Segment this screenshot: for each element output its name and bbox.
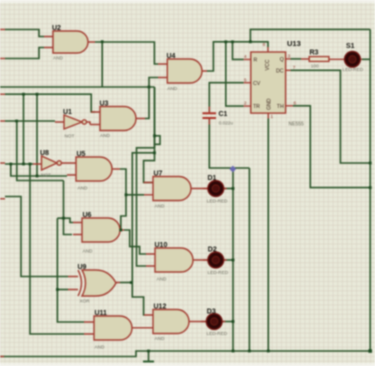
wire D1 to cathode rail bbox=[224, 188, 234, 190]
svg-text:5: 5 bbox=[244, 77, 247, 82]
U2 pin stubs bbox=[44, 37, 95, 48]
S1 lead stubs bbox=[359, 58, 362, 60]
junction node on U2 output line bbox=[101, 40, 104, 43]
svg-text:NOT: NOT bbox=[65, 134, 75, 139]
junction node rail-TH bbox=[369, 186, 372, 189]
svg-text:S1: S1 bbox=[346, 43, 355, 50]
input terminal stub y198 bbox=[0, 198, 5, 200]
input terminal stub y58 bbox=[0, 58, 5, 60]
junction node rail-VCC bbox=[249, 40, 252, 43]
svg-text:1: 1 bbox=[271, 114, 274, 119]
U9 pin stubs bbox=[68, 277, 120, 290]
wire bottom bus bbox=[0, 351, 370, 357]
wire trunk to U11 pin A bbox=[57, 218, 84, 322]
wire rail to VCC pin 8 bbox=[250, 42, 268, 47]
U6 pin stubs bbox=[73, 223, 124, 235]
svg-text:C1: C1 bbox=[219, 111, 228, 118]
wire C1 bottom to ground rail bbox=[209, 119, 249, 168]
svg-text:U7: U7 bbox=[154, 171, 163, 178]
wire branch to U6 pin A bbox=[57, 218, 73, 222]
wire input to U1 bbox=[5, 120, 55, 122]
junction node rail-DC bbox=[369, 162, 372, 165]
svg-text:U1: U1 bbox=[63, 109, 72, 116]
wire branch to U9 pin B bbox=[57, 289, 68, 291]
junction node bus-ground rail bbox=[248, 350, 251, 353]
svg-text:U6: U6 bbox=[83, 212, 92, 219]
ground symbol bar bbox=[143, 361, 154, 363]
wire S1 cathode to right rail bbox=[362, 58, 370, 60]
svg-text:U9: U9 bbox=[78, 264, 87, 271]
D1 pin stubs bbox=[203, 188, 227, 190]
wire input H2 to U3 pin A bbox=[5, 94, 95, 112]
and-gate U5 bbox=[76, 157, 112, 181]
svg-text:GND: GND bbox=[266, 98, 272, 110]
svg-text:DC: DC bbox=[276, 68, 284, 74]
wire lower input to U9 pin A bbox=[5, 197, 68, 277]
led D1 bbox=[208, 181, 224, 197]
not-gate U8 bbox=[42, 156, 58, 170]
xor-gate U9 bbox=[82, 270, 116, 296]
wire trunk staircase to U12 pin A bbox=[132, 283, 144, 316]
U12 pin stubs bbox=[144, 315, 206, 322]
U13 GND pin stub bbox=[267, 113, 269, 118]
svg-text:AND: AND bbox=[157, 277, 168, 282]
U13 left pin stubs R CV TR bbox=[244, 59, 251, 106]
junction node bus-cathode rail bbox=[232, 350, 235, 353]
timer U13 NE555 body bbox=[251, 52, 286, 113]
wire rail up and right to top bbox=[250, 29, 370, 41]
wire vertical from H2 to U5 pin B bbox=[36, 94, 38, 176]
wire jog from input line down to U5 net bbox=[11, 164, 37, 176]
origin marker diamond bbox=[229, 166, 236, 173]
wire GND pin 1 to bottom bus bbox=[267, 119, 269, 352]
svg-text:AND: AND bbox=[155, 336, 166, 341]
wire tee down to U9 output node bbox=[132, 153, 154, 283]
R3 lead stubs bbox=[301, 58, 346, 60]
junction node rail-bus corner bbox=[368, 349, 372, 353]
junction node U5out branch bbox=[125, 193, 128, 196]
wire LED cathode rail vertical bbox=[232, 168, 234, 351]
junction node trunk U9 bbox=[56, 288, 59, 291]
junction node U8 input c bbox=[29, 163, 32, 166]
svg-text:CV: CV bbox=[253, 81, 261, 87]
U4 pin stubs bbox=[158, 64, 207, 78]
svg-text:AND: AND bbox=[100, 133, 111, 138]
wire input A to U2 pin 1 bbox=[5, 30, 44, 37]
junction node D1 cathode bbox=[232, 187, 235, 190]
U8 pin stubs bbox=[33, 163, 67, 164]
wire U2 output to U4 pin A bbox=[95, 42, 158, 64]
wire U9 output joins trunk bbox=[120, 282, 132, 284]
input terminal stub y29 bbox=[0, 29, 5, 31]
wire H1 right end down bbox=[154, 87, 156, 148]
junction node H2-b bbox=[36, 93, 39, 96]
svg-text:6: 6 bbox=[294, 100, 297, 105]
capacitor C1 plates bbox=[203, 113, 217, 118]
svg-text:7: 7 bbox=[293, 65, 296, 70]
led D3 bbox=[206, 314, 222, 330]
wire DC pin 7 down to right rail bbox=[291, 70, 371, 163]
and-gate U7 bbox=[153, 177, 191, 201]
U7 pin stubs bbox=[144, 183, 208, 195]
wire branch down to TR pin 2 bbox=[226, 42, 244, 106]
U10 pin stubs bbox=[146, 254, 208, 266]
wire input B to U2 pin 2 bbox=[5, 48, 44, 59]
led S1 bbox=[345, 51, 361, 67]
svg-text:Q: Q bbox=[280, 57, 284, 63]
svg-text:D1: D1 bbox=[208, 175, 217, 182]
wire vertical to U11 pin B bbox=[30, 164, 84, 334]
svg-text:U13: U13 bbox=[287, 39, 301, 48]
svg-text:LED-RED: LED-RED bbox=[207, 199, 228, 204]
input terminal stub bottom bbox=[0, 356, 4, 358]
junction node H1-U3out bbox=[148, 86, 151, 89]
svg-text:AND: AND bbox=[167, 86, 178, 91]
junction node H2-a bbox=[22, 93, 25, 96]
svg-text:2: 2 bbox=[244, 101, 247, 106]
wire vertical to bottom bus bbox=[248, 168, 250, 351]
resistor R3 body bbox=[309, 57, 329, 62]
and-gate U3 bbox=[100, 107, 136, 131]
wire branch to R pin 4 bbox=[233, 42, 244, 60]
wire right rail vertical bbox=[369, 29, 371, 351]
svg-text:LED-RED: LED-RED bbox=[207, 331, 228, 336]
svg-text:R: R bbox=[254, 58, 258, 64]
svg-text:TR: TR bbox=[253, 104, 260, 110]
svg-text:D3: D3 bbox=[207, 309, 216, 316]
wire node H1 horizontal bbox=[0, 86, 155, 88]
wire Q pin 3 to R3 bbox=[291, 58, 302, 60]
junction node U6 output join bbox=[119, 229, 122, 232]
svg-text:AND: AND bbox=[95, 345, 106, 350]
wire CV pin 5 to C1 top bbox=[209, 83, 243, 112]
svg-text:NOT: NOT bbox=[41, 173, 51, 178]
wire tee to U10 pin B bbox=[137, 148, 155, 266]
svg-text:TH: TH bbox=[277, 104, 284, 110]
U11 pin stubs bbox=[84, 322, 94, 334]
led D2 bbox=[208, 252, 224, 268]
input terminal stub y163 bbox=[0, 162, 5, 164]
junction node bus-GND pin bbox=[267, 350, 270, 353]
wire U11 output to U12 pin B bbox=[132, 327, 153, 329]
svg-text:XOR: XOR bbox=[80, 299, 91, 304]
and-gate U2 bbox=[53, 31, 88, 53]
wire input to U8 bbox=[5, 163, 33, 165]
svg-text:LED-RED: LED-RED bbox=[343, 67, 364, 72]
junction node bus-ground symbol bbox=[147, 350, 150, 353]
wire H1 right branch down to U7 pin A bbox=[144, 87, 155, 183]
junction node U5 net bbox=[36, 175, 39, 178]
wire TH pin 6 down to right rail bbox=[293, 106, 370, 188]
wire branch from U2 output down to node H1 bbox=[101, 42, 103, 87]
svg-text:3: 3 bbox=[288, 54, 291, 59]
wire D2 to cathode rail bbox=[224, 259, 234, 261]
junction node U8 input b bbox=[22, 163, 25, 166]
svg-text:0.022u: 0.022u bbox=[219, 121, 234, 126]
and-gate U12 bbox=[153, 310, 189, 334]
svg-text:U3: U3 bbox=[100, 101, 109, 108]
junction node U8 input a bbox=[9, 163, 12, 166]
wire U5 pin B line bbox=[37, 175, 67, 177]
svg-text:R3: R3 bbox=[310, 50, 319, 57]
svg-text:100: 100 bbox=[311, 64, 319, 69]
svg-text:U12: U12 bbox=[154, 304, 167, 311]
junction node rail-R bbox=[231, 40, 234, 43]
junction node U9out bbox=[130, 281, 133, 284]
U3 pin stubs bbox=[90, 112, 145, 125]
input terminal stub y94 bbox=[0, 93, 5, 95]
junction node D3 cathode bbox=[232, 320, 235, 323]
svg-text:U11: U11 bbox=[95, 310, 108, 317]
junction node trunk tee bbox=[153, 151, 156, 154]
svg-text:4: 4 bbox=[244, 54, 247, 59]
svg-text:AND: AND bbox=[78, 186, 89, 191]
svg-text:U5: U5 bbox=[77, 151, 86, 158]
svg-text:D2: D2 bbox=[208, 247, 217, 254]
D3 pin stubs bbox=[201, 321, 225, 323]
wire vertical from H2 to U8 input line bbox=[23, 94, 25, 164]
and-gate U6 bbox=[82, 218, 120, 242]
wire ground stem bbox=[148, 351, 150, 361]
U13 right pin stubs Q DC TH bbox=[286, 59, 293, 106]
junction node U1 input bbox=[15, 120, 18, 123]
wire feeder down to U6 pins bbox=[64, 181, 73, 235]
svg-text:8: 8 bbox=[263, 42, 266, 47]
svg-text:U4: U4 bbox=[167, 53, 176, 60]
not-gate U1 bbox=[64, 115, 82, 129]
svg-text:U2: U2 bbox=[52, 25, 61, 32]
U5 pin stubs bbox=[67, 163, 120, 175]
wire U4 output up to rail bbox=[207, 42, 250, 71]
wire vertical from U1 line to feeder bbox=[17, 121, 64, 181]
and-gate U4 bbox=[167, 59, 202, 83]
wire U6 output staircase to U10 pin A bbox=[124, 230, 146, 254]
and-gate U11 bbox=[94, 316, 132, 340]
junction node trunk box top bbox=[153, 134, 156, 137]
C1 lead stubs bbox=[208, 107, 210, 125]
U13 VCC pin stub bbox=[267, 47, 269, 52]
svg-text:VCC: VCC bbox=[265, 59, 271, 70]
wire U5 output to U7 pin B bbox=[120, 169, 144, 195]
junction node D2 cathode bbox=[232, 259, 235, 262]
wire U3 output up through H1 to U4 pin B bbox=[145, 78, 158, 119]
svg-text:AND: AND bbox=[83, 249, 94, 254]
svg-text:AND: AND bbox=[53, 56, 64, 61]
wire branch from U5 net down joining U6 output bbox=[121, 195, 126, 230]
svg-text:LED-RED: LED-RED bbox=[208, 270, 229, 275]
input terminal stub y121 bbox=[0, 120, 5, 122]
D2 pin stubs bbox=[203, 259, 227, 261]
svg-text:U10: U10 bbox=[155, 242, 168, 249]
U1 pin stubs bbox=[55, 122, 90, 125]
wire D3 to cathode rail bbox=[222, 321, 233, 323]
and-gate U10 bbox=[155, 248, 193, 272]
svg-text:AND: AND bbox=[155, 204, 166, 209]
wire box jog on trunk bbox=[155, 136, 161, 145]
svg-text:NE555: NE555 bbox=[289, 122, 305, 128]
junction node feeder U6 bbox=[62, 217, 65, 220]
svg-text:U8: U8 bbox=[40, 150, 49, 157]
junction node rail-TR bbox=[224, 40, 227, 43]
